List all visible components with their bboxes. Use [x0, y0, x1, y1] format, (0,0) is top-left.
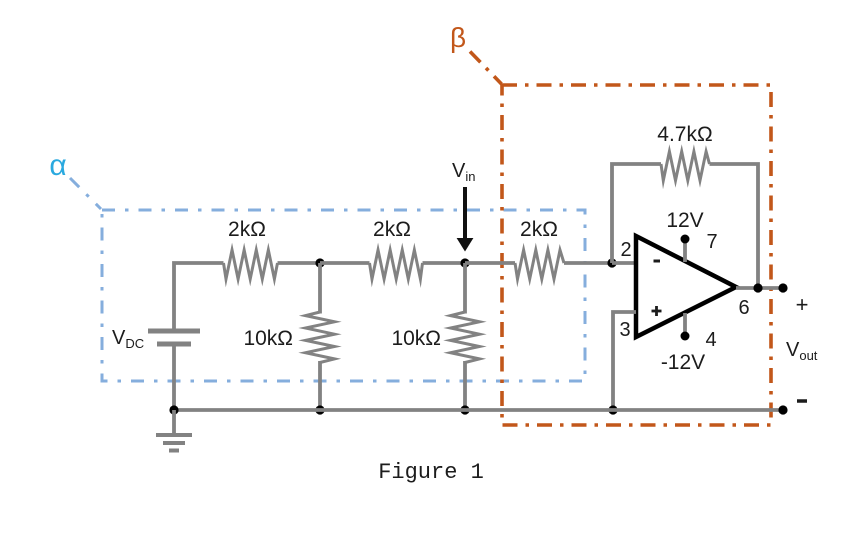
output node dot: [753, 283, 762, 292]
wire node A down to R3: [318, 263, 322, 314]
alpha region box: [102, 210, 585, 381]
svg-text:2: 2: [620, 239, 631, 261]
terminal minus sign: [797, 399, 807, 403]
Vin arrow: [457, 187, 474, 252]
pin 7 label: [706, 231, 717, 253]
negative supply stub pin 4: [683, 313, 687, 336]
wire node B down to R4: [463, 263, 467, 314]
supply label -12V: [661, 351, 705, 374]
svg-text:12V: 12V: [666, 209, 703, 232]
resistor R2 2k zigzag: [370, 250, 423, 279]
alpha label: [49, 149, 66, 182]
op-amp minus sign: [654, 260, 661, 263]
wire node B to R5: [465, 261, 515, 265]
wire R1 to node A: [278, 261, 321, 265]
figure caption: [378, 460, 484, 485]
wire node C to op-amp pin 2: [612, 261, 636, 265]
supply label 12V: [666, 209, 703, 232]
svg-text:2kΩ: 2kΩ: [520, 218, 558, 241]
pin 2 label: [620, 239, 631, 261]
feedback wire up from node C: [612, 164, 661, 263]
resistor R1 2k zigzag: [224, 250, 278, 279]
wire R3 to bottom rail: [318, 361, 322, 410]
svg-text:4: 4: [705, 329, 716, 351]
pin 3 label: [619, 319, 630, 341]
svg-text:2kΩ: 2kΩ: [228, 218, 266, 241]
resistor R4 10k vertical zigzag: [451, 312, 480, 363]
R2 value label 2kOhm: [373, 218, 411, 241]
R5 value label 2kOhm: [520, 218, 558, 241]
node B2 bottom junction dot: [460, 405, 469, 414]
node B junction dot (Vin node): [460, 258, 469, 267]
R4 value label 10kOhm: [391, 327, 441, 350]
node A junction dot: [315, 258, 324, 267]
Vin label: [452, 160, 475, 184]
svg-text:6: 6: [738, 297, 749, 319]
wire node A to R2: [320, 261, 370, 265]
R3 value label 10kOhm: [243, 327, 293, 350]
svg-text:Vout: Vout: [786, 339, 818, 363]
svg-text:α: α: [49, 149, 66, 182]
node D junction dot on rail: [608, 405, 617, 414]
wire R5 to node C: [564, 261, 612, 265]
svg-text:10kΩ: 10kΩ: [243, 327, 293, 350]
svg-text:VDC: VDC: [112, 327, 144, 351]
battery VDC bottom plate: [157, 342, 191, 347]
op-amp plus sign: [652, 306, 662, 316]
ground symbol: [156, 410, 192, 451]
svg-text:β: β: [450, 22, 466, 53]
resistor R5 2k zigzag: [515, 250, 564, 279]
terminal plus sign: [796, 292, 809, 317]
node A2 bottom junction dot: [315, 405, 324, 414]
svg-text:3: 3: [619, 319, 630, 341]
pin 6 label: [738, 297, 749, 319]
svg-text:4.7kΩ: 4.7kΩ: [657, 123, 712, 146]
svg-text:10kΩ: 10kΩ: [391, 327, 441, 350]
pin 4 label: [705, 329, 716, 351]
wire R2 to node B: [423, 261, 466, 265]
battery VDC label: [112, 327, 144, 351]
svg-text:7: 7: [706, 231, 717, 253]
wire top rail left segment: [174, 263, 224, 331]
wire R4 to bottom rail: [463, 361, 467, 410]
svg-text:2kΩ: 2kΩ: [373, 218, 411, 241]
bottom rail wire: [174, 408, 783, 412]
wire battery bottom to rail: [172, 346, 176, 410]
svg-text:-12V: -12V: [661, 351, 705, 374]
svg-text:Figure 1: Figure 1: [378, 460, 484, 485]
positive supply stub pin 7: [683, 240, 687, 262]
beta label: [450, 22, 466, 53]
Vout label: [786, 339, 818, 363]
node C junction dot (inverting input): [607, 258, 616, 267]
resistor RF 4.7k zigzag: [661, 152, 710, 181]
negative supply dot: [681, 332, 690, 341]
alpha leader line: [70, 178, 101, 209]
output wire: [736, 286, 783, 290]
positive supply dot: [681, 235, 690, 244]
output terminal plus dot: [778, 283, 787, 292]
battery VDC top plate: [148, 329, 200, 334]
wire non-inverting input from rail: [613, 312, 636, 410]
resistor R3 10k vertical zigzag: [306, 312, 335, 363]
ground junction dot: [169, 405, 178, 414]
svg-text:+: +: [796, 292, 809, 317]
feedback wire down to output node: [710, 164, 759, 288]
op-amp U1 triangle: [636, 236, 736, 337]
R1 value label 2kOhm: [228, 218, 266, 241]
negative terminal dot: [778, 405, 787, 414]
RF value label 4.7kOhm: [657, 123, 712, 146]
beta region box: [502, 85, 771, 425]
svg-text:Vin: Vin: [452, 160, 475, 184]
beta leader line: [470, 52, 502, 85]
